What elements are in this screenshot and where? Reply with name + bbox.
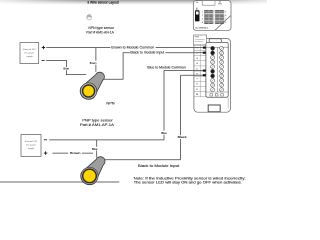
module U1 terminal strip outline (194, 39, 231, 113)
wire: PS2 plus brown to sensor S2 (52, 152, 93, 154)
sensor S1 face rim (80, 83, 96, 99)
sensor S1 face dark ring (82, 84, 95, 97)
svg-text:Blue: Blue (92, 147, 98, 151)
svg-text:Black: Black (178, 135, 188, 139)
svg-text:NPN type sensor: NPN type sensor (88, 26, 114, 30)
svg-text:3: 3 (202, 19, 203, 21)
U1 right rail lower (227, 97, 229, 108)
U1 top connector (202, 1, 215, 6)
wire: PS2 minus to blue bus (49, 139, 164, 141)
svg-text:DC power: DC power (26, 143, 36, 146)
U1 top tab (209, 39, 221, 43)
wire: S2 black output to module input (104, 75, 194, 160)
sensor S2 body (81, 157, 105, 185)
svg-text:External 24V: External 24V (25, 140, 38, 143)
svg-text:The sensor LED will stay ON an: The sensor LED will stay ON and go OFF w… (134, 180, 242, 184)
U1 terminal banks (204, 10, 208, 13)
svg-text:1: 1 (202, 11, 203, 13)
svg-text:8: 8 (225, 22, 226, 24)
svg-text:supply: supply (28, 148, 35, 150)
sensor S2 face dark ring (82, 168, 97, 183)
sensor S1 lens (83, 86, 94, 97)
wire: +V brown line to module (46, 47, 194, 49)
svg-text:Blue: Blue (161, 131, 167, 135)
svg-text:6: 6 (225, 15, 226, 17)
PS1 minus terminal (42, 59, 45, 61)
svg-text:Part # AM1-AP-1A: Part # AM1-AP-1A (80, 123, 115, 127)
svg-text:2: 2 (202, 15, 203, 17)
U1 DIN foot (208, 105, 220, 112)
wire: brown drop to sensor S1 (95, 48, 97, 72)
svg-text:NPN: NPN (106, 102, 115, 106)
wire: S1 black output to module input (102, 53, 194, 79)
U1 terminal block frame (206, 42, 228, 97)
svg-text:Blue: Blue (63, 67, 69, 71)
sensor S2 lens (83, 170, 95, 182)
U1 corner wedge (215, 16, 231, 30)
svg-text:Black to Module Input: Black to Module Input (138, 164, 180, 168)
svg-text:Brown: Brown (70, 151, 81, 155)
U1 block bottom screws (206, 91, 228, 93)
U1 screw terminals (211, 46, 215, 50)
PS2 minus terminal (44, 139, 47, 141)
svg-text:IO- 08ND3S-1: IO- 08ND3S-1 (195, 28, 209, 30)
wire: PS1 minus blue to sensor S1 (46, 60, 86, 74)
svg-text:Brown to Module Common: Brown to Module Common (111, 46, 154, 50)
hand cursor icon (86, 14, 91, 20)
PS2 plus terminal (44, 151, 47, 154)
module U1 top view outline (193, 1, 231, 31)
PS1 plus terminal (42, 46, 45, 49)
power supply PS2 box (21, 135, 41, 157)
svg-text:Blue to Module Common: Blue to Module Common (147, 66, 186, 70)
svg-text:Brown: Brown (90, 61, 97, 65)
svg-text:Part # AM1-AN-1A: Part # AM1-AN-1A (86, 31, 114, 35)
wire: blue riser to module common (164, 71, 194, 140)
U1 terminal number cells (200, 45, 206, 97)
svg-text:4: 4 (202, 22, 203, 24)
svg-text:Black to module Input: Black to module Input (130, 51, 164, 55)
sensor S2 face rim (81, 167, 98, 184)
wire terminations at module (194, 47, 203, 49)
svg-text:DC power: DC power (25, 51, 35, 54)
U1 label plate (194, 35, 207, 45)
wire: blue drop to sensor S2 (96, 140, 98, 158)
svg-text:External 24V: External 24V (23, 48, 36, 51)
U1 power switch (196, 8, 198, 11)
page bottom rule (0, 181, 119, 183)
svg-text:POL: POL (218, 4, 222, 6)
svg-text:5: 5 (225, 11, 226, 13)
page top edge shading (0, 0, 267, 5)
svg-text:supply: supply (26, 56, 33, 58)
sensor S1 body (80, 72, 104, 99)
svg-text:3 Wire sensor Layout: 3 Wire sensor Layout (87, 0, 119, 4)
power supply PS1 box (20, 43, 39, 64)
